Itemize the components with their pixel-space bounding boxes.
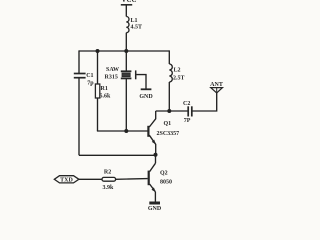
svg-text:GND: GND	[148, 206, 162, 210]
junction	[124, 129, 128, 133]
inductor L1	[126, 17, 142, 33]
svg-text:R1: R1	[101, 86, 108, 92]
wire	[125, 5, 127, 17]
wire (base rail)	[97, 130, 148, 132]
wire (emitter rail)	[79, 154, 156, 156]
junction	[167, 109, 171, 113]
svg-text:SAW: SAW	[106, 67, 119, 73]
wire (top rail)	[79, 50, 169, 52]
svg-text:2SC3357: 2SC3357	[157, 131, 180, 137]
wire	[192, 93, 216, 111]
svg-text:Q1: Q1	[164, 121, 172, 127]
wire	[97, 51, 99, 84]
wire (SAW case to ground)	[136, 75, 146, 89]
svg-text:Q2: Q2	[160, 171, 168, 177]
wire	[125, 51, 127, 71]
wire	[97, 98, 99, 131]
wire	[78, 50, 80, 73]
node TXD input tag	[54, 176, 79, 184]
svg-text:TXD: TXD	[60, 178, 73, 184]
svg-text:VCC: VCC	[121, 0, 136, 4]
svg-text:C1: C1	[86, 73, 93, 79]
wire	[125, 79, 127, 131]
svg-text:5.6k: 5.6k	[100, 94, 112, 100]
svg-text:4.5T: 4.5T	[131, 25, 143, 31]
junction	[124, 49, 128, 53]
svg-text:8050: 8050	[160, 180, 172, 186]
resistor R2	[102, 170, 116, 191]
capacitor C1	[74, 73, 94, 87]
svg-text:7P: 7P	[184, 118, 191, 124]
svg-text:L2: L2	[174, 68, 181, 74]
antenna ANT	[210, 82, 223, 93]
inductor L2	[169, 50, 184, 111]
svg-text:L1: L1	[131, 18, 138, 24]
wire (collector rail)	[156, 110, 188, 112]
wire	[116, 178, 148, 181]
svg-text:C2: C2	[183, 101, 190, 107]
wire	[125, 33, 127, 51]
svg-text:R2: R2	[104, 170, 111, 176]
transistor Q1 2SC3357	[148, 111, 179, 155]
SAW resonator R315	[105, 67, 136, 81]
svg-text:7p: 7p	[87, 81, 94, 87]
transistor Q2 8050	[149, 155, 172, 202]
wire	[78, 78, 80, 155]
junction	[154, 153, 158, 157]
svg-text:2.5T: 2.5T	[173, 76, 185, 82]
ground (Q2 emitter)	[148, 203, 162, 212]
junction	[96, 49, 100, 53]
svg-text:GND: GND	[139, 94, 153, 100]
wire	[79, 178, 102, 180]
ground (SAW case)	[139, 89, 153, 100]
capacitor C2	[183, 101, 192, 124]
svg-text:3.9k: 3.9k	[103, 185, 115, 191]
node VCC	[121, 0, 137, 5]
resistor R1	[95, 84, 111, 100]
svg-text:R315: R315	[105, 75, 118, 81]
